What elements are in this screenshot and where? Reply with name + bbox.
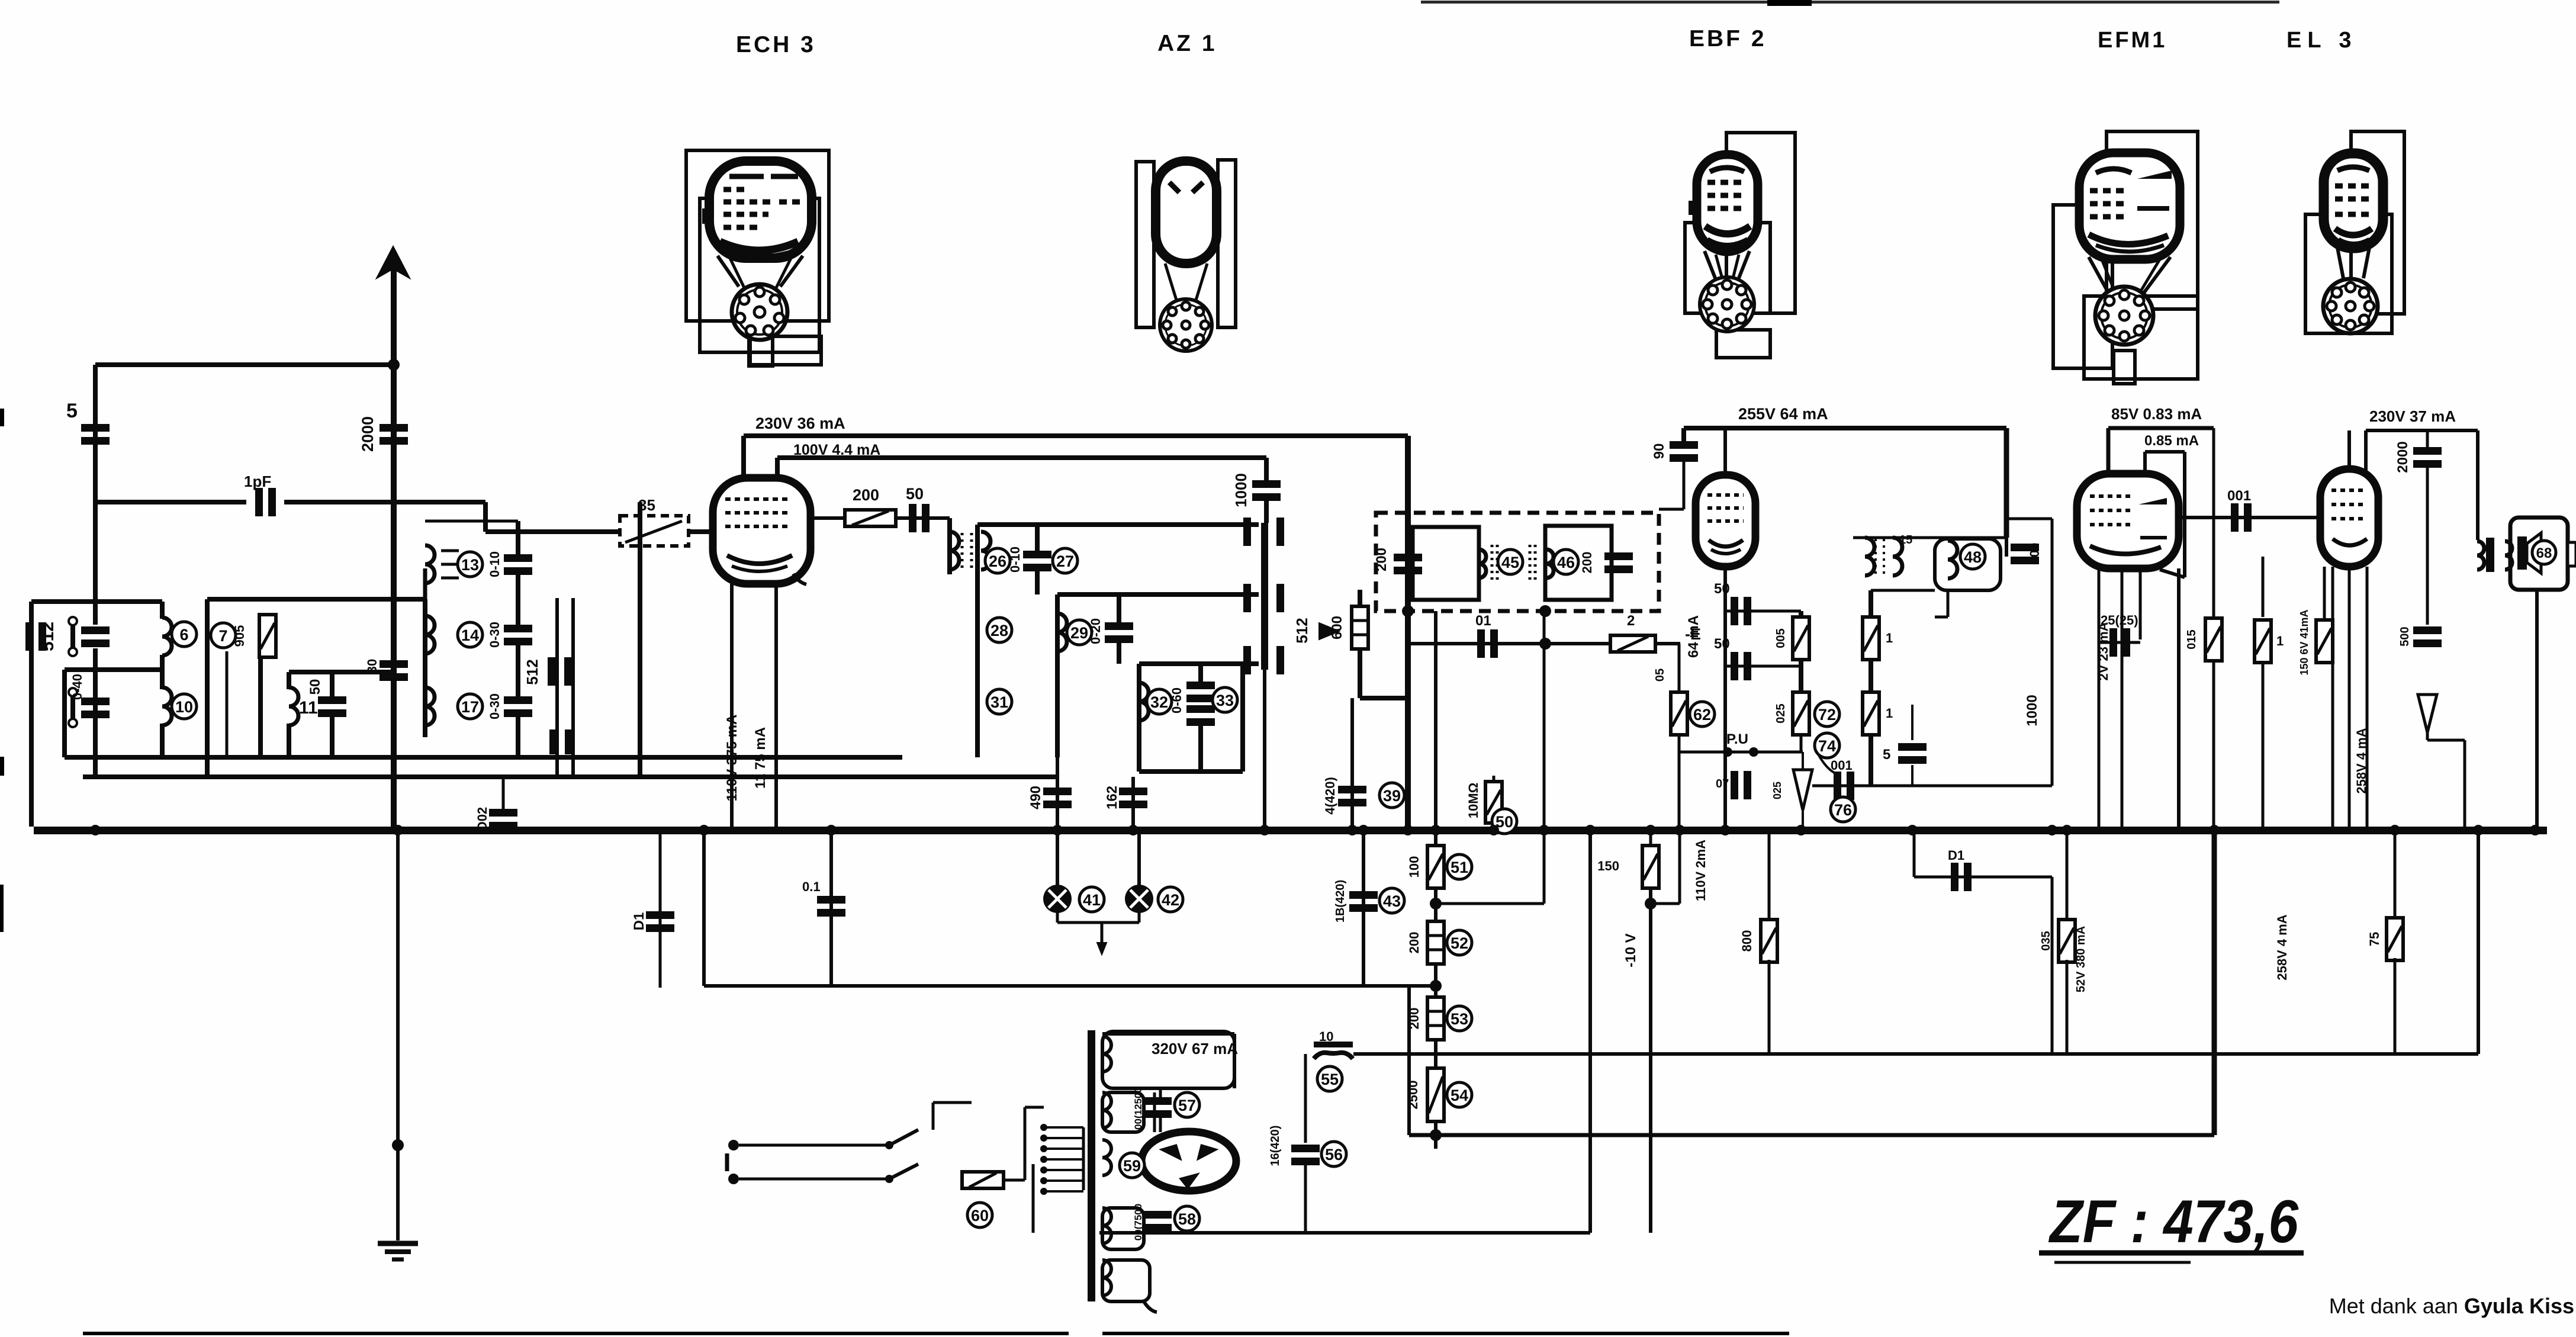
svg-text:68: 68 — [2536, 545, 2552, 561]
svg-text:10MΩ: 10MΩ — [1466, 783, 1481, 818]
svg-text:60: 60 — [971, 1207, 989, 1224]
svg-text:0-20: 0-20 — [1088, 618, 1103, 644]
svg-text:255V 64 mA: 255V 64 mA — [1738, 405, 1828, 423]
svg-text:15: 15 — [1899, 533, 1912, 547]
svg-text:015: 015 — [2185, 629, 2198, 649]
svg-text:D02: D02 — [475, 807, 490, 831]
svg-text:0-10: 0-10 — [1008, 547, 1022, 573]
svg-text:52V 380 mA: 52V 380 mA — [2075, 926, 2088, 992]
svg-text:52: 52 — [1451, 934, 1468, 952]
svg-text:75: 75 — [2367, 932, 2382, 946]
svg-text:46: 46 — [1557, 554, 1575, 571]
svg-text:0-40: 0-40 — [70, 674, 85, 700]
svg-text:230V 37 mA: 230V 37 mA — [2369, 407, 2456, 425]
svg-text:258V 4 mA: 258V 4 mA — [2275, 914, 2289, 980]
svg-text:64 mA: 64 mA — [1686, 615, 1702, 658]
svg-text:5: 5 — [66, 400, 78, 422]
svg-text:4(420): 4(420) — [1323, 777, 1337, 815]
svg-text:43: 43 — [1383, 892, 1401, 910]
svg-text:42: 42 — [1162, 891, 1179, 909]
svg-text:33: 33 — [1216, 692, 1234, 709]
svg-text:025: 025 — [1771, 782, 1783, 799]
svg-text:1: 1 — [1886, 631, 1893, 645]
svg-text:32: 32 — [1150, 693, 1168, 711]
svg-text:2000: 2000 — [359, 416, 377, 452]
svg-text:50: 50 — [307, 679, 323, 695]
svg-text:0.85 mA: 0.85 mA — [2144, 433, 2199, 449]
svg-text:57: 57 — [1178, 1097, 1196, 1114]
svg-text:5: 5 — [1883, 747, 1890, 763]
svg-text:2: 2 — [1627, 613, 1635, 629]
svg-text:31: 31 — [990, 693, 1008, 711]
svg-text:200: 200 — [2027, 543, 2042, 565]
svg-text:-10 V: -10 V — [1623, 933, 1639, 967]
svg-text:200: 200 — [1407, 932, 1422, 954]
svg-text:10: 10 — [1319, 1029, 1333, 1044]
svg-text:258V 4 mA: 258V 4 mA — [2354, 728, 2369, 793]
svg-text:2V 23 mA: 2V 23 mA — [2096, 622, 2111, 680]
svg-text:76: 76 — [1834, 801, 1852, 819]
svg-text:7: 7 — [218, 627, 227, 645]
svg-text:05: 05 — [1654, 668, 1667, 682]
svg-text:001: 001 — [1831, 758, 1853, 773]
svg-text:0.1: 0.1 — [802, 879, 821, 894]
svg-text:54: 54 — [1451, 1087, 1468, 1104]
svg-text:150: 150 — [1597, 859, 1619, 873]
svg-text:005: 005 — [1774, 628, 1787, 648]
svg-text:27: 27 — [1056, 552, 1074, 570]
svg-text:AZ 1: AZ 1 — [1157, 31, 1217, 56]
svg-text:56: 56 — [1325, 1146, 1343, 1164]
svg-text:00(7500: 00(7500 — [1133, 1204, 1144, 1240]
svg-text:28: 28 — [990, 622, 1008, 639]
svg-text:512: 512 — [1293, 618, 1311, 643]
svg-text:85V 0.83 mA: 85V 0.83 mA — [2111, 405, 2202, 423]
svg-text:ECH 3: ECH 3 — [736, 32, 816, 57]
svg-text:001: 001 — [2227, 488, 2251, 504]
svg-text:25(25): 25(25) — [2101, 613, 2138, 628]
svg-text:1: 1 — [2276, 634, 2284, 648]
svg-text:025: 025 — [1774, 703, 1787, 723]
svg-text:50: 50 — [1714, 581, 1730, 597]
svg-text:58: 58 — [1178, 1210, 1196, 1228]
svg-text:13: 13 — [461, 556, 479, 574]
svg-text:11 75 mA: 11 75 mA — [752, 727, 768, 789]
svg-text:1B(420): 1B(420) — [1334, 880, 1347, 923]
svg-text:07: 07 — [1716, 777, 1729, 790]
svg-text:50: 50 — [906, 485, 924, 503]
svg-text:150 6V 41mA: 150 6V 41mA — [2298, 609, 2310, 675]
svg-text:26: 26 — [989, 552, 1006, 570]
svg-text:200: 200 — [1580, 552, 1594, 574]
svg-text:110V 375 mA: 110V 375 mA — [724, 715, 740, 802]
svg-text:800: 800 — [1739, 930, 1754, 952]
svg-text:16(420): 16(420) — [1269, 1126, 1282, 1166]
svg-text:51: 51 — [1451, 859, 1468, 876]
svg-text:Met dank aan Gyula Kiss: Met dank aan Gyula Kiss — [2329, 1294, 2574, 1318]
svg-text:14: 14 — [461, 626, 479, 644]
svg-text:490: 490 — [1028, 786, 1044, 809]
svg-text:55: 55 — [1321, 1071, 1339, 1088]
svg-text:EBF 2: EBF 2 — [1689, 26, 1767, 52]
svg-text:D1: D1 — [1948, 848, 1964, 863]
svg-text:230V 36 mA: 230V 36 mA — [755, 414, 845, 432]
svg-text:59: 59 — [1123, 1157, 1141, 1175]
svg-text:11: 11 — [299, 698, 318, 718]
svg-text:10: 10 — [175, 698, 193, 716]
svg-text:1pF: 1pF — [244, 473, 271, 490]
svg-text:1000: 1000 — [2024, 695, 2040, 726]
svg-text:0-60: 0-60 — [1169, 687, 1184, 714]
svg-text:320V 67 mA: 320V 67 mA — [1152, 1040, 1238, 1058]
svg-text:1: 1 — [1886, 706, 1893, 721]
svg-text:72: 72 — [1818, 706, 1836, 724]
svg-text:00(12500: 00(12500 — [1133, 1087, 1144, 1130]
svg-text:74: 74 — [1818, 737, 1836, 755]
svg-text:0-30: 0-30 — [487, 693, 502, 719]
svg-text:905: 905 — [232, 625, 247, 647]
svg-text:035: 035 — [2040, 931, 2053, 950]
svg-text:50: 50 — [1714, 636, 1730, 652]
svg-text:500: 500 — [2398, 626, 2411, 646]
svg-text:1000: 1000 — [1232, 473, 1250, 507]
svg-text:D1: D1 — [631, 912, 647, 931]
svg-text:90: 90 — [1651, 443, 1667, 459]
svg-text:01: 01 — [1475, 613, 1491, 629]
svg-text:62: 62 — [1693, 706, 1711, 724]
svg-text:39: 39 — [1383, 787, 1401, 805]
svg-text:17: 17 — [461, 698, 479, 716]
svg-text:0-30: 0-30 — [487, 622, 502, 648]
svg-text:EFM1: EFM1 — [2098, 28, 2167, 53]
svg-text:P.U: P.U — [1726, 731, 1748, 747]
svg-text:110V 2mA: 110V 2mA — [1693, 840, 1708, 901]
svg-text:53: 53 — [1451, 1010, 1468, 1028]
svg-text:600: 600 — [1329, 616, 1345, 639]
svg-text:512: 512 — [523, 659, 541, 684]
svg-text:48: 48 — [1964, 548, 1982, 566]
svg-text:41: 41 — [1083, 891, 1101, 909]
svg-text:162: 162 — [1104, 786, 1120, 809]
svg-text:2000: 2000 — [2395, 441, 2411, 473]
svg-text:0-10: 0-10 — [487, 551, 502, 577]
svg-text:45: 45 — [1501, 554, 1519, 571]
svg-text:29: 29 — [1070, 624, 1088, 642]
svg-text:200: 200 — [853, 486, 879, 504]
svg-text:ZF : 473,6: ZF : 473,6 — [2048, 1188, 2299, 1255]
svg-text:EL 3: EL 3 — [2286, 28, 2358, 53]
svg-text:200: 200 — [1374, 548, 1390, 571]
svg-text:6: 6 — [179, 626, 188, 644]
svg-text:100: 100 — [1407, 856, 1422, 878]
